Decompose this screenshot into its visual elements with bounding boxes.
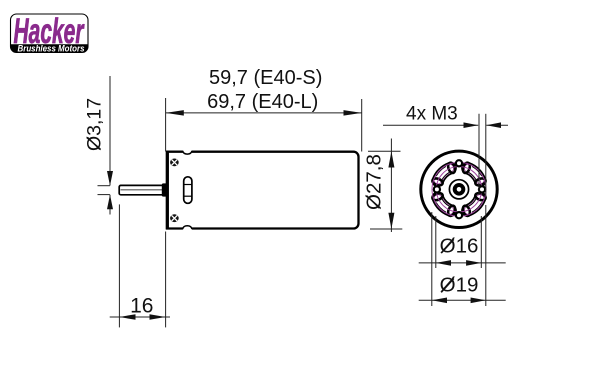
shaft bbox=[119, 185, 166, 194]
svg-text:69,7 (E40-L): 69,7 (E40-L) bbox=[207, 91, 318, 113]
svg-text:16: 16 bbox=[130, 295, 153, 318]
D19 arrows bbox=[432, 298, 486, 304]
screw top bbox=[170, 159, 179, 167]
svg-text:59,7 (E40-S): 59,7 (E40-S) bbox=[209, 67, 322, 89]
logo box bbox=[11, 14, 89, 53]
M3 hole left bbox=[434, 186, 440, 192]
body dia dim bbox=[368, 139, 402, 233]
center shaft ring bbox=[455, 185, 464, 194]
screw bottom bbox=[170, 214, 179, 222]
D16 dim lines bbox=[419, 216, 506, 268]
shaft length arrows bbox=[119, 314, 165, 320]
bottom notch bbox=[183, 226, 192, 230]
front view outer circle bbox=[421, 151, 497, 227]
M3 arrows bbox=[464, 122, 502, 128]
motor body (side view) bbox=[167, 151, 359, 229]
vent slot NE bbox=[458, 159, 489, 190]
svg-text:Ø3,17: Ø3,17 bbox=[84, 98, 106, 151]
length dim line bbox=[166, 98, 362, 152]
center boss circle bbox=[449, 180, 468, 199]
M3 hole top bbox=[456, 160, 462, 166]
D19 dim lines bbox=[419, 205, 506, 306]
vent slot NW bbox=[428, 159, 459, 190]
diameter slash overshoot marks bbox=[87, 137, 454, 292]
vent slot SW bbox=[428, 189, 459, 220]
M3 hole right bbox=[479, 186, 485, 192]
svg-text:Ø27,8: Ø27,8 bbox=[363, 154, 386, 210]
top notch bbox=[183, 150, 192, 154]
M3 leader lines bbox=[383, 114, 508, 196]
svg-text:Brushless Motors: Brushless Motors bbox=[18, 43, 85, 53]
shaft dia dim lines bbox=[98, 76, 111, 215]
vent slot SE bbox=[458, 189, 489, 220]
shaft length dim bbox=[110, 204, 170, 327]
svg-text:Ø16: Ø16 bbox=[440, 235, 479, 258]
oval slot on body bbox=[184, 177, 192, 204]
length dim arrows bbox=[166, 110, 362, 116]
circle D19 (magenta) bbox=[432, 162, 486, 216]
bolt circle D16 (magenta) bbox=[436, 167, 481, 212]
shaft bearing boss bbox=[162, 183, 167, 196]
svg-text:Ø19: Ø19 bbox=[440, 274, 479, 297]
body dia arrows bbox=[388, 151, 394, 229]
shaft dia arrows bbox=[107, 171, 113, 209]
M3 hole bottom bbox=[456, 212, 462, 218]
svg-text:4x M3: 4x M3 bbox=[406, 104, 458, 125]
D16 arrows bbox=[436, 260, 482, 266]
